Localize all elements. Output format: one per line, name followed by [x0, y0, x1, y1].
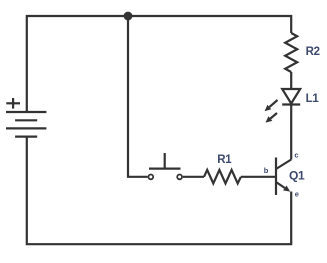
svg-text:L1: L1 — [306, 93, 320, 105]
svg-text:b: b — [264, 166, 269, 175]
svg-text:Q1: Q1 — [289, 169, 305, 183]
svg-text:c: c — [294, 151, 298, 160]
svg-text:e: e — [295, 190, 299, 199]
svg-text:R1: R1 — [217, 154, 232, 166]
svg-text:R2: R2 — [306, 46, 320, 58]
